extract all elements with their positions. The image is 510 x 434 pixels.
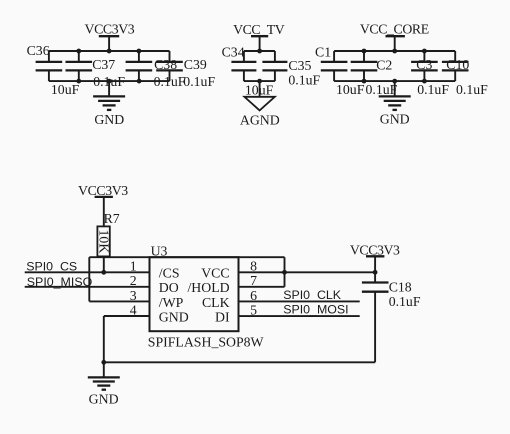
wire pin4 GND xyxy=(104,316,150,362)
svg-text:GND: GND xyxy=(380,111,410,126)
svg-text:3: 3 xyxy=(130,288,137,303)
svg-text:0.1uF: 0.1uF xyxy=(417,82,449,97)
svg-text:0.1uF: 0.1uF xyxy=(389,294,421,309)
wire pin7 /HOLD xyxy=(239,286,285,288)
capacitor C1 xyxy=(321,51,348,81)
svg-text:C39: C39 xyxy=(184,57,207,72)
svg-text:VCC3V3: VCC3V3 xyxy=(78,183,128,198)
svg-text:10uF: 10uF xyxy=(336,82,365,97)
svg-text:GND: GND xyxy=(89,392,119,407)
svg-text:SPI0_CLK: SPI0_CLK xyxy=(283,288,342,302)
wire pin6 CLK xyxy=(239,300,360,302)
junction dot bank2 top rail xyxy=(257,49,262,54)
junction dots bank1 top rail xyxy=(76,49,141,54)
wire /WP-/HOLD tie (top edge) xyxy=(89,256,284,258)
svg-text:C36: C36 xyxy=(27,43,50,58)
svg-text:VCC3V3: VCC3V3 xyxy=(85,21,135,36)
capacitor C35 xyxy=(262,51,287,81)
ground GND bank3 xyxy=(379,81,411,126)
svg-text:C34: C34 xyxy=(222,44,245,59)
wire top rail bank2 xyxy=(244,50,275,52)
junction dot R7 to pin1 xyxy=(101,270,106,275)
svg-text:C1: C1 xyxy=(315,44,331,59)
capacitor C18 xyxy=(362,283,389,363)
capacitor C10 xyxy=(442,51,469,81)
svg-text:CLK: CLK xyxy=(202,295,230,310)
wire pin5 DI xyxy=(239,315,360,317)
resistor R7 xyxy=(96,226,111,272)
net VCC3V3 (bank1 power symbol) xyxy=(85,21,135,51)
junction dots bank3 bottom rail xyxy=(362,79,427,84)
svg-text:GND: GND xyxy=(94,112,124,127)
wire top rail bank1 xyxy=(49,50,170,52)
svg-text:/HOLD: /HOLD xyxy=(187,280,229,295)
svg-text:C37: C37 xyxy=(92,57,115,72)
svg-text:/CS: /CS xyxy=(159,265,180,280)
wire right vertical tie to pin7 xyxy=(284,257,286,287)
capacitor C34 xyxy=(231,51,256,81)
net VCC_CORE (bank3 power symbol) xyxy=(360,21,429,51)
wire bottom rail bank1 xyxy=(49,80,170,82)
svg-text:0.1uF: 0.1uF xyxy=(288,73,320,88)
ground GND bank1 xyxy=(93,81,125,127)
ground GND bottom xyxy=(88,362,120,406)
svg-text:DI: DI xyxy=(215,309,230,324)
svg-text:10uF: 10uF xyxy=(51,82,80,97)
wire left vertical pin1-net to pin3 xyxy=(88,257,90,301)
wire pin1 /CS xyxy=(25,271,150,273)
svg-text:GND: GND xyxy=(159,309,189,324)
svg-text:8: 8 xyxy=(250,259,257,274)
svg-text:C2: C2 xyxy=(376,58,392,73)
junction dot bank2 bottom rail xyxy=(257,79,262,84)
svg-text:0.1uF: 0.1uF xyxy=(183,74,215,89)
net VCC3V3 (pull-up power symbol) xyxy=(78,183,128,227)
junction dots bank3 top rail xyxy=(362,49,427,54)
wire pin3 /WP xyxy=(89,300,149,302)
junction dot pin8/tie xyxy=(282,270,287,275)
svg-text:R7: R7 xyxy=(104,211,120,226)
capacitor C39 xyxy=(156,51,183,81)
svg-text:SPIFLASH_SOP8W: SPIFLASH_SOP8W xyxy=(148,334,264,349)
svg-text:10K: 10K xyxy=(96,230,111,254)
wire pin2 DO xyxy=(25,286,150,288)
svg-text:2: 2 xyxy=(130,273,137,288)
svg-text:0.1uF: 0.1uF xyxy=(456,82,488,97)
svg-text:SPI0_MOSI: SPI0_MOSI xyxy=(283,303,348,317)
svg-text:VCC_TV: VCC_TV xyxy=(233,22,285,37)
junction dot VCC3V3/C18 xyxy=(373,270,378,275)
net VCC_TV (bank2 power symbol) xyxy=(233,22,285,51)
net VCC3V3 (right power symbol) xyxy=(350,243,400,283)
svg-text:VCC: VCC xyxy=(201,265,229,280)
svg-text:1: 1 xyxy=(130,259,137,274)
svg-text:VCC_CORE: VCC_CORE xyxy=(360,21,429,36)
svg-text:/WP: /WP xyxy=(159,295,184,310)
ground AGND (triangle) xyxy=(240,81,280,127)
op IC U3 body xyxy=(150,257,239,331)
capacitor C37 xyxy=(66,51,93,81)
capacitor C36 xyxy=(36,51,63,81)
svg-text:C18: C18 xyxy=(389,279,412,294)
wire bottom rail bank2 xyxy=(244,80,275,82)
svg-text:C35: C35 xyxy=(288,58,311,73)
junction dots bank1 bottom rail xyxy=(76,79,141,84)
svg-text:4: 4 xyxy=(130,302,137,317)
capacitor C2 xyxy=(351,51,378,81)
wire pin8 VCC to C18 xyxy=(239,271,376,273)
capacitor C3 xyxy=(411,51,438,81)
wire top rail bank3 xyxy=(334,50,455,52)
capacitor C38 xyxy=(126,51,153,81)
svg-text:0.1uF: 0.1uF xyxy=(366,82,398,97)
wire bottom rail bank3 xyxy=(334,80,455,82)
svg-text:AGND: AGND xyxy=(240,112,280,127)
junction dot bottom ground xyxy=(101,360,106,365)
wire bottom ground rail xyxy=(104,361,375,363)
svg-text:DO: DO xyxy=(159,280,179,295)
